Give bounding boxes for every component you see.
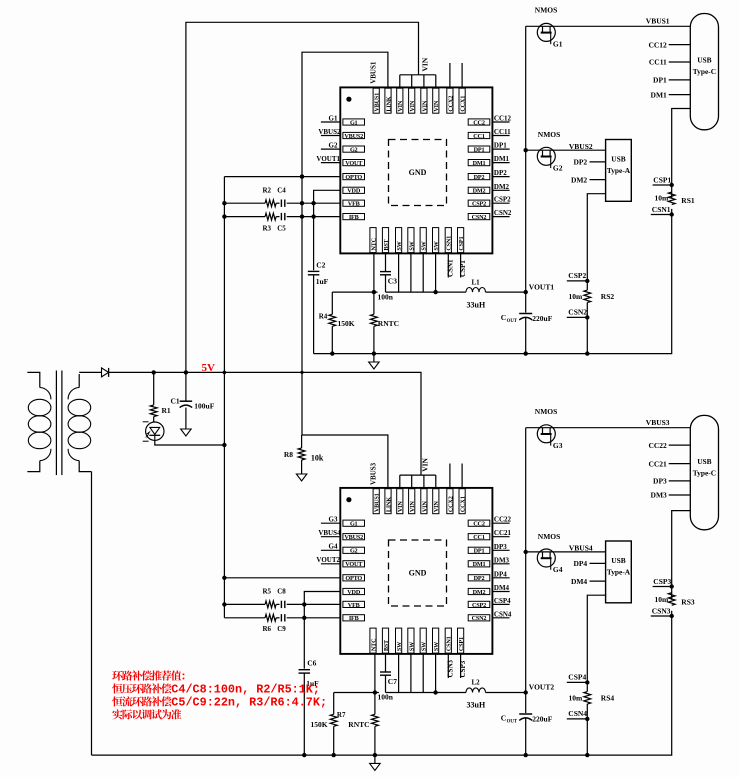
svg-text:VBUS2: VBUS2 — [344, 534, 363, 541]
svg-text:VBUS1: VBUS1 — [374, 493, 381, 512]
wire DP4 stub — [590, 562, 606, 564]
svg-text:VFB: VFB — [348, 201, 360, 208]
svg-text:CC12: CC12 — [494, 115, 512, 123]
svg-text:USB: USB — [697, 56, 711, 65]
svg-text:CSN1: CSN1 — [447, 259, 455, 277]
svg-text:CSP4: CSP4 — [494, 597, 511, 605]
wire IC2 CCX1 stub — [461, 464, 463, 488]
svg-text:GND: GND — [409, 569, 427, 578]
IC U3 pin VBUS1 (top) — [373, 489, 379, 514]
svg-text:G2: G2 — [553, 164, 563, 173]
net stubs right side IC2 (CC22..CSN4) — [492, 522, 509, 524]
junction dot VOUT2/G4 — [524, 550, 528, 554]
IC U3 pin NTC (bottom) — [370, 628, 376, 653]
wire VOUT1 vertical (NMOS feed) — [525, 26, 527, 312]
svg-text:DP2: DP2 — [474, 575, 485, 582]
IC U1 pin VBUS2 — [343, 132, 365, 138]
IC U3 pin IFB — [343, 615, 365, 621]
resistor R5 — [265, 601, 276, 608]
IC U1 pin BST (bottom) — [382, 228, 388, 253]
junction dots OPTO net — [222, 201, 226, 205]
svg-text:CSN4: CSN4 — [494, 610, 512, 618]
wire L1 to VOUT1 node — [486, 291, 526, 293]
wire C6 to gnd rail — [303, 673, 305, 755]
USB Type-A connector J4 — [606, 541, 632, 603]
resistor RS4 — [584, 692, 591, 705]
svg-text:CC2: CC2 — [473, 521, 485, 528]
svg-text:SW: SW — [421, 240, 428, 250]
svg-text:CSN2: CSN2 — [568, 308, 587, 317]
svg-text:G3: G3 — [553, 441, 563, 450]
svg-text:VBUS1: VBUS1 — [646, 17, 670, 26]
svg-text:SW: SW — [408, 641, 415, 651]
IC U3 pin VIN (top) — [421, 489, 427, 514]
net stub VBUS2 (IC1) — [321, 135, 340, 137]
svg-text:CSN1: CSN1 — [652, 205, 671, 214]
svg-text:G2: G2 — [329, 142, 338, 150]
junction dots on 5V rail — [152, 370, 156, 374]
svg-text:DM2: DM2 — [473, 589, 486, 596]
wire CC22 stub — [669, 444, 691, 446]
resistor RS1 — [668, 192, 675, 205]
svg-text:CC22: CC22 — [494, 516, 512, 524]
IC U1 pin NTC (bottom) — [370, 228, 376, 253]
IC U1 pin VDD — [343, 187, 365, 193]
svg-text:SW: SW — [421, 641, 428, 651]
wire opto LED cathode to OPTO net — [155, 440, 225, 445]
svg-text:DM4: DM4 — [571, 577, 587, 586]
svg-text:OUT: OUT — [507, 719, 518, 724]
svg-text:CCX2: CCX2 — [447, 496, 454, 512]
IC U3 pin CSN2 — [468, 615, 490, 621]
net stub CSP1 (below IC1) — [460, 253, 462, 277]
svg-text:DP2: DP2 — [494, 169, 507, 177]
svg-text:VOUT1: VOUT1 — [316, 155, 340, 163]
svg-text:C6: C6 — [307, 659, 316, 668]
svg-text:VOUT2: VOUT2 — [529, 683, 555, 692]
IC U3 GND pad — [389, 540, 447, 606]
svg-text:VIN: VIN — [421, 501, 428, 512]
IC U1 pin IFB — [343, 214, 365, 220]
junction dots bottom gnd rail — [332, 753, 336, 757]
svg-text:CSP2: CSP2 — [472, 602, 486, 609]
svg-text:G1: G1 — [329, 114, 338, 122]
svg-text:VBUS3: VBUS3 — [370, 462, 378, 485]
svg-text:G4: G4 — [553, 565, 563, 574]
svg-text:USB: USB — [611, 556, 625, 565]
capacitor C2 — [308, 270, 320, 272]
svg-text:Type-C: Type-C — [693, 67, 716, 76]
IC U1 pin VIN (top) — [433, 88, 439, 113]
svg-text:VIN: VIN — [420, 457, 429, 471]
wire Type-A return to RS4 — [587, 595, 605, 685]
svg-text:RS1: RS1 — [681, 196, 695, 205]
junction dots top gnd rail — [330, 351, 334, 355]
USB Type-A connector J2 — [606, 140, 632, 202]
wire DP1 stub — [669, 79, 691, 81]
IC U1 body — [340, 87, 492, 253]
svg-text:R4: R4 — [319, 312, 328, 320]
svg-text:LINK: LINK — [385, 497, 392, 512]
IC U1 pin G2 — [343, 146, 365, 152]
svg-text:G1: G1 — [350, 521, 358, 528]
IC U3 pin G1 — [343, 520, 365, 526]
svg-text:SW: SW — [408, 240, 415, 250]
wire IC1 VIN bus — [400, 74, 436, 76]
IC U1 pin VFB — [343, 200, 365, 206]
svg-text:R1: R1 — [162, 406, 171, 415]
svg-text:BST: BST — [383, 238, 390, 250]
net stub G1 (IC1) — [321, 121, 340, 123]
svg-text:C: C — [501, 714, 506, 723]
svg-text:VDD: VDD — [347, 589, 361, 596]
capacitor C7 (bootstrap) — [385, 654, 387, 672]
IC U1 pin VIN (top) — [421, 88, 427, 113]
wire DM2 stub — [590, 179, 606, 181]
IC U3 pin CSP2 — [468, 601, 490, 607]
svg-text:VBUS2: VBUS2 — [318, 128, 341, 136]
svg-text:VOUT: VOUT — [345, 561, 363, 568]
svg-text:NTC: NTC — [370, 238, 377, 250]
net stub CSN1 (below IC1) — [447, 253, 449, 277]
svg-text:150K: 150K — [338, 319, 355, 328]
svg-text:DM1: DM1 — [473, 561, 486, 568]
svg-text:G3: G3 — [329, 516, 338, 524]
ground below R8 — [296, 474, 307, 481]
resistor R4 — [331, 292, 333, 314]
svg-text:C: C — [501, 313, 506, 322]
wire IC1 LINK to link net — [302, 52, 388, 435]
ground below C1 — [181, 429, 192, 436]
svg-text:SW: SW — [433, 641, 440, 651]
svg-text:Type-A: Type-A — [607, 166, 631, 175]
IC U1 pin DP1 — [468, 146, 490, 152]
svg-text:LINK: LINK — [385, 96, 392, 111]
IC U3 pin DM1 — [468, 561, 490, 567]
IC U3 pin VIN (top) — [397, 489, 403, 514]
wire R7 to NTC (IC2) — [334, 692, 379, 694]
svg-text:DM1: DM1 — [494, 155, 510, 163]
svg-text:OPTO: OPTO — [345, 174, 362, 181]
svg-text:DM2: DM2 — [571, 175, 587, 184]
svg-text:DM4: DM4 — [494, 584, 510, 592]
svg-text:C7: C7 — [388, 677, 397, 686]
svg-text:VOUT2: VOUT2 — [316, 556, 340, 564]
svg-text:SW: SW — [396, 240, 403, 250]
svg-text:Type-C: Type-C — [693, 469, 716, 478]
svg-text:CSN2: CSN2 — [494, 209, 512, 217]
svg-text:CCX2: CCX2 — [447, 96, 454, 112]
svg-text:CC2: CC2 — [473, 119, 485, 126]
svg-text:CCX1: CCX1 — [460, 496, 467, 512]
svg-text:DP3: DP3 — [494, 543, 507, 551]
diode D1 — [102, 368, 109, 377]
IC U3 pin DP1 — [468, 547, 490, 553]
IC U1 pin OPTO — [343, 174, 365, 180]
svg-text:CSP3: CSP3 — [459, 660, 467, 677]
svg-text:CC12: CC12 — [648, 40, 667, 49]
svg-text:G2: G2 — [350, 548, 358, 555]
svg-text:SW: SW — [396, 641, 403, 651]
svg-text:RS2: RS2 — [601, 292, 615, 301]
svg-text:C2: C2 — [316, 260, 325, 269]
svg-text:CSN1: CSN1 — [446, 236, 453, 251]
IC U3 pin CSP1 (bottom) — [458, 628, 464, 653]
IC U3 pin CCX2 (top) — [447, 489, 453, 514]
resistor R3 — [265, 213, 276, 220]
svg-text:DP1: DP1 — [653, 76, 667, 85]
svg-text:CSN3: CSN3 — [447, 659, 455, 677]
resistor R8 — [301, 435, 303, 448]
IC U3 pin G2 — [343, 547, 365, 553]
svg-text:NTC: NTC — [370, 639, 377, 651]
svg-text:VBUS3: VBUS3 — [646, 418, 670, 427]
svg-text:SW: SW — [433, 240, 440, 250]
resistor RNTC (bottom) — [374, 654, 376, 714]
IC U3 pin SW (bottom) — [420, 628, 426, 653]
svg-text:DP3: DP3 — [653, 477, 667, 486]
svg-text:USB: USB — [697, 457, 711, 466]
IC U3 pin VDD — [343, 588, 365, 594]
ground below RNTC (bottom) — [370, 763, 381, 770]
junction dot VOUT1/G2 — [524, 148, 528, 152]
svg-text:CSP1: CSP1 — [653, 175, 671, 184]
svg-text:DP1: DP1 — [474, 548, 485, 555]
svg-text:100n: 100n — [378, 693, 394, 702]
IC U1 pin VIN (top) — [409, 88, 415, 113]
wire 5V to IC1 VIN (top feed) — [186, 22, 419, 372]
wire SW node to L2 (IC2) — [386, 692, 467, 694]
junction dots comp rows (IC2) — [302, 602, 306, 606]
svg-text:RS3: RS3 — [681, 597, 695, 606]
svg-text:CC11: CC11 — [494, 128, 511, 136]
svg-text:NMOS: NMOS — [538, 130, 561, 139]
svg-text:VBUS1: VBUS1 — [374, 93, 381, 112]
IC U3 pin DM2 — [468, 588, 490, 594]
wire VFB row (IC2) — [224, 603, 265, 605]
svg-text:RNTC: RNTC — [348, 720, 369, 729]
svg-text:VIN: VIN — [409, 100, 416, 111]
svg-text:DM2: DM2 — [473, 188, 486, 195]
wire RS2 to gnd rail — [586, 303, 588, 354]
net stub VBUS4 (IC2) — [321, 536, 340, 538]
wire C2 to gnd rail — [313, 275, 315, 354]
wire IC2 CCX2 stub — [449, 464, 451, 488]
wire OPTO net (IC1 OPTO row + long vertical) — [224, 176, 340, 178]
net stub G4 (IC2) — [321, 549, 340, 551]
wire 5V rail — [109, 372, 421, 475]
wire VOUT2 vertical (NMOS feed) — [525, 428, 527, 713]
IC U1 pin SW (bottom) — [420, 228, 426, 253]
wire IFB row (IC2) — [224, 617, 265, 619]
svg-text:C4/C8:100n, R2/R5:1K;: C4/C8:100n, R2/R5:1K; — [171, 683, 320, 697]
svg-text:CSP3: CSP3 — [653, 577, 671, 586]
svg-text:CC11: CC11 — [649, 58, 667, 67]
net stub VOUT2 (IC2) — [321, 563, 340, 565]
IC U1 pin CSN2 — [468, 214, 490, 220]
svg-text:G4: G4 — [329, 543, 338, 551]
capacitor C3 (bootstrap) — [385, 253, 387, 271]
wire CC12 stub — [669, 44, 691, 46]
svg-text:GND: GND — [409, 168, 427, 177]
svg-text:VIN: VIN — [421, 100, 428, 111]
ground below RNTC (top) — [369, 362, 380, 369]
svg-text:DP2: DP2 — [573, 158, 587, 167]
IC U3 pin VIN (top) — [409, 489, 415, 514]
IC U3 pin SW (bottom) — [433, 628, 439, 653]
transformer T1 core — [55, 371, 57, 476]
wire VDD row (IC2) down to C6 — [304, 592, 340, 669]
svg-text:DP1: DP1 — [494, 142, 507, 150]
IC U3 body — [340, 488, 492, 654]
IC U3 pin CSN1 (bottom) — [445, 628, 451, 653]
svg-text:IFB: IFB — [349, 214, 359, 221]
IC U3 pin SW (bottom) — [396, 628, 402, 653]
svg-text:DP2: DP2 — [474, 174, 485, 181]
svg-text:VOUT: VOUT — [345, 160, 363, 167]
inductor L2 — [466, 688, 486, 693]
svg-text:DP4: DP4 — [573, 559, 587, 568]
wire SW node to L1 (IC1) — [386, 291, 467, 293]
wire top section gnd rail — [314, 209, 672, 354]
wire IFB row (IC1) — [224, 216, 265, 218]
wire bottom gnd rail — [92, 611, 672, 755]
svg-text:VBUS1: VBUS1 — [370, 61, 378, 84]
svg-text:100n: 100n — [378, 292, 394, 301]
svg-text:CSP1: CSP1 — [459, 260, 467, 277]
wire R4 to NTC — [332, 291, 377, 293]
svg-text:G2: G2 — [350, 147, 358, 154]
svg-text:C4: C4 — [277, 187, 286, 195]
svg-text:10m: 10m — [569, 694, 584, 703]
wire CC21 stub — [669, 463, 691, 465]
svg-text:VIN: VIN — [433, 501, 440, 512]
wire CC11 stub — [669, 61, 691, 63]
svg-text:R2: R2 — [263, 187, 272, 195]
svg-text:VFB: VFB — [348, 602, 360, 609]
svg-text:10m: 10m — [655, 193, 670, 202]
resistor RNTC (top) — [373, 253, 375, 314]
svg-text:CSP1: CSP1 — [458, 237, 465, 251]
svg-text:5V: 5V — [202, 362, 216, 374]
wire VDD row (IC1) down to C2 — [314, 190, 341, 270]
wire secondary return (left rail riser) — [91, 472, 93, 755]
svg-text:100uF: 100uF — [194, 402, 214, 411]
svg-text:VBUS4: VBUS4 — [318, 529, 341, 537]
svg-text:C8: C8 — [277, 587, 286, 595]
svg-text:CSN2: CSN2 — [472, 615, 487, 622]
svg-text:DP4: DP4 — [494, 570, 507, 578]
svg-text:10m: 10m — [569, 292, 584, 301]
wire L2 to VOUT2 node — [486, 692, 526, 694]
svg-text:DM1: DM1 — [651, 90, 667, 99]
IC U1 GND pad — [389, 140, 447, 206]
IC U3 pin VBUS2 — [343, 534, 365, 540]
IC U1 pin CSN1 (bottom) — [445, 228, 451, 253]
svg-text:L1: L1 — [472, 278, 481, 286]
IC U3 pin LINK (top) — [385, 489, 391, 514]
IC U1 pin LINK (top) — [385, 88, 391, 113]
wire IC1 CCX1 stub — [461, 63, 463, 87]
svg-text:CSN3: CSN3 — [652, 606, 671, 615]
IC U3 pin VIN (top) — [433, 489, 439, 514]
svg-text:CSN2: CSN2 — [472, 214, 487, 221]
svg-text:C3: C3 — [388, 277, 397, 286]
svg-text:C1: C1 — [171, 397, 180, 406]
svg-text:OUT: OUT — [507, 319, 518, 324]
svg-text:CC21: CC21 — [648, 459, 667, 468]
svg-text:VBUS2: VBUS2 — [569, 142, 593, 151]
capacitor C1 — [185, 372, 187, 401]
wire DM3 stub — [669, 494, 691, 496]
IC U1 pin DP2 — [468, 174, 490, 180]
svg-text:C5/C9:22n, R3/R6:4.7K;: C5/C9:22n, R3/R6:4.7K; — [171, 696, 327, 710]
svg-text:R6: R6 — [263, 625, 272, 633]
IC U1 pin VBUS1 (top) — [373, 88, 379, 113]
svg-text:DM3: DM3 — [494, 556, 510, 564]
svg-text:L2: L2 — [472, 679, 481, 687]
svg-text:NMOS: NMOS — [538, 532, 561, 541]
svg-text:VIN: VIN — [409, 501, 416, 512]
IC U3 pin BST (bottom) — [382, 628, 388, 653]
svg-text:CSP2: CSP2 — [568, 271, 586, 280]
resistor RS2 — [584, 290, 591, 303]
svg-text:DP1: DP1 — [474, 147, 485, 154]
svg-text:CC22: CC22 — [648, 441, 667, 450]
IC U1 pin DM2 — [468, 187, 490, 193]
IC U3 pin OPTO — [343, 575, 365, 581]
net stub G2 (IC1) — [321, 148, 340, 150]
net stub G3 (IC2) — [321, 522, 340, 524]
wire IC2 VIN bus — [400, 474, 436, 476]
svg-text:DM1: DM1 — [473, 160, 486, 167]
IC U1 pin CSP1 (bottom) — [458, 228, 464, 253]
IC U3 pin CC2 — [468, 520, 490, 526]
svg-text:220uF: 220uF — [532, 714, 552, 723]
IC U1 pin DM1 — [468, 160, 490, 166]
svg-text:DM3: DM3 — [651, 491, 667, 500]
net stub CSN3 (below IC2) — [447, 654, 449, 678]
inductor L1 — [466, 288, 486, 293]
IC U1 pin CSP2 — [468, 200, 490, 206]
transformer T1 primary winding — [27, 372, 39, 387]
IC U1 pin SW (bottom) — [396, 228, 402, 253]
svg-text:BST: BST — [383, 639, 390, 651]
svg-text:R7: R7 — [337, 711, 346, 719]
wire DP2 stub — [590, 161, 606, 163]
net stub CSP3 (below IC2) — [460, 654, 462, 678]
capacitor Cout (bottom) — [519, 713, 532, 715]
svg-text:R5: R5 — [263, 587, 272, 595]
red annotation text (Chinese) — [112, 670, 327, 719]
junction dots on link net vertical — [300, 174, 304, 178]
resistor RS3 — [668, 593, 675, 606]
svg-text:CC1: CC1 — [473, 133, 485, 140]
IC U3 pin VOUT — [343, 561, 365, 567]
resistor R1 — [153, 372, 155, 404]
resistor R6 — [265, 614, 276, 621]
wire VFB row (IC1) — [224, 202, 265, 204]
svg-text:1uF: 1uF — [316, 277, 329, 286]
wire secondary top to diode — [79, 371, 101, 373]
IC U1 pin CC2 — [468, 119, 490, 125]
svg-text:C5: C5 — [277, 225, 286, 233]
USB Type-C connector J3 — [690, 415, 718, 529]
net stubs right side IC1 (CC12..CSN2) — [492, 121, 509, 123]
resistor R7 — [333, 693, 335, 715]
capacitor C6 — [299, 669, 311, 671]
svg-text:USB: USB — [611, 154, 625, 163]
